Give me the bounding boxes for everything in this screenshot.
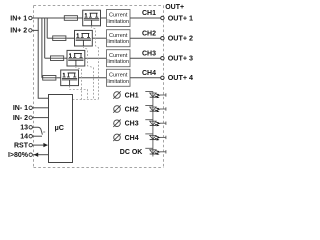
svg-text:CH2: CH2 xyxy=(142,30,156,37)
svg-text:CH1: CH1 xyxy=(125,92,139,99)
svg-text:OUT+ 4: OUT+ 4 xyxy=(168,73,193,82)
LED chain supply wire xyxy=(152,92,154,157)
wire lim3 to OUT+3 terminal xyxy=(130,57,161,59)
fuse F4 xyxy=(43,76,56,81)
dashed control collector into uC xyxy=(73,99,99,101)
svg-text:Current: Current xyxy=(109,33,128,39)
svg-text:IN+ 1: IN+ 1 xyxy=(10,15,27,22)
wire F3 to switch S3 xyxy=(64,57,67,59)
current limitation box 3 xyxy=(107,50,131,67)
current limitation box 4 xyxy=(107,69,131,86)
LED CH1 xyxy=(145,92,166,99)
LED DC OK xyxy=(145,148,166,155)
terminal OUT+ 4 xyxy=(161,76,164,79)
wire IN+1 to fuse F1 xyxy=(32,17,64,19)
svg-text:OUT+ 3: OUT+ 3 xyxy=(168,54,193,63)
wire S2 to current limitation 2 xyxy=(92,37,106,39)
svg-text:13: 13 xyxy=(20,125,28,132)
wire 13 xyxy=(32,127,42,134)
potentiometer CH2 xyxy=(113,105,120,112)
svg-text:CH4: CH4 xyxy=(142,70,156,77)
dashed gate control line CH3 to uC xyxy=(76,66,82,100)
svg-text:IN- 2: IN- 2 xyxy=(13,115,28,122)
svg-text:RST: RST xyxy=(14,142,29,149)
svg-text:CH2: CH2 xyxy=(125,106,139,113)
bus vertical to CH3 xyxy=(44,18,46,58)
dashed gate control line CH2 to uC xyxy=(83,46,93,100)
terminal OUT+ 3 xyxy=(161,57,164,60)
svg-text:OUT+ 2: OUT+ 2 xyxy=(168,34,193,43)
dashed gate control line CH4 to uC xyxy=(70,86,88,100)
dashed gate control line CH1 to uC xyxy=(92,26,99,100)
terminal OUT+ 1 xyxy=(161,16,164,19)
svg-text:DC OK: DC OK xyxy=(120,149,143,156)
bus vertical to CH2 xyxy=(46,18,48,38)
wire bus to fuse F2 xyxy=(47,37,53,39)
electronic switch S1 xyxy=(83,10,101,26)
wire I>80% from uC with arrow xyxy=(33,154,48,156)
current limitation box 1 xyxy=(107,10,131,27)
wire IN-2 to uC xyxy=(32,117,48,119)
potentiometer CH1 xyxy=(113,91,120,98)
wire F2 to switch S2 xyxy=(66,37,74,39)
fuse F3 xyxy=(51,56,64,61)
wire IN-1 to uC xyxy=(32,107,48,109)
svg-text:IN+ 2: IN+ 2 xyxy=(10,28,27,35)
svg-text:CH1: CH1 xyxy=(142,10,156,17)
LED CH2 xyxy=(145,106,166,113)
svg-text:µC: µC xyxy=(55,123,64,132)
wire S1 to current limitation 1 xyxy=(101,17,107,19)
fuse F1 xyxy=(64,16,77,21)
current limitation box 2 xyxy=(107,30,131,47)
electronic switch S4 xyxy=(61,70,79,86)
potentiometer CH4 xyxy=(113,134,120,141)
svg-text:14: 14 xyxy=(20,134,28,141)
svg-text:Current: Current xyxy=(109,73,128,79)
module border (dashed) xyxy=(34,6,164,168)
wire F1 to switch S1 xyxy=(78,17,83,19)
svg-text:IN- 1: IN- 1 xyxy=(13,105,28,112)
wire lim4 to OUT+4 terminal xyxy=(130,77,161,79)
wire lim2 to OUT+2 terminal xyxy=(130,37,161,39)
svg-text:OUT+: OUT+ xyxy=(165,4,184,11)
wire lim1 to OUT+1 terminal xyxy=(130,17,161,19)
microcontroller uC xyxy=(49,95,73,163)
bus vertical to uC xyxy=(38,18,48,98)
electronic switch S2 xyxy=(75,30,93,46)
wire IN+2 to bus xyxy=(32,29,39,31)
svg-text:limitation: limitation xyxy=(107,19,129,25)
svg-text:CH4: CH4 xyxy=(125,135,139,142)
LED CH3 xyxy=(145,120,166,127)
svg-text:CH3: CH3 xyxy=(142,50,156,57)
bus vertical to CH4 xyxy=(41,18,43,78)
svg-text:limitation: limitation xyxy=(107,59,129,65)
wire F4 to switch S4 xyxy=(56,77,60,79)
svg-text:limitation: limitation xyxy=(107,79,129,85)
wire 14 xyxy=(32,135,42,137)
wire S3 to current limitation 3 xyxy=(85,57,107,59)
electronic switch S3 xyxy=(67,50,85,66)
terminal OUT+ 2 xyxy=(161,37,164,40)
svg-text:Current: Current xyxy=(109,53,128,59)
LED CH4 xyxy=(145,134,166,141)
potentiometer CH3 xyxy=(113,120,120,127)
wire bus to fuse F4 xyxy=(41,77,44,79)
svg-text:I>80%: I>80% xyxy=(8,152,29,159)
fuse F2 xyxy=(53,36,66,41)
svg-text:OUT+ 1: OUT+ 1 xyxy=(168,13,193,22)
wire bus to fuse F3 xyxy=(45,57,51,59)
svg-text:CH3: CH3 xyxy=(125,121,139,128)
wire S4 to current limitation 4 xyxy=(79,77,107,79)
svg-text:Current: Current xyxy=(109,13,128,19)
wire RST to uC with arrow xyxy=(32,144,47,146)
svg-text:limitation: limitation xyxy=(107,39,129,45)
mechanical link to uC xyxy=(43,131,45,133)
